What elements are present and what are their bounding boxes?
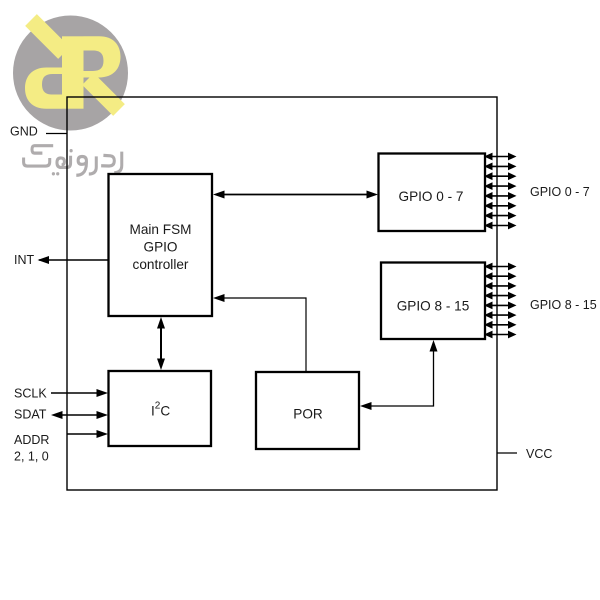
block POR <box>256 372 359 449</box>
wire Main FSM to I2C bidirectional <box>160 324 162 363</box>
wire GPIO pin 14 bidirectional <box>490 324 510 326</box>
wire SDAT bidirectional <box>59 414 100 416</box>
svg-text:GPIO 0 - 7: GPIO 0 - 7 <box>399 189 464 204</box>
wire POR to GPIO 8-15 <box>367 347 434 406</box>
wire GPIO pin 8 bidirectional <box>490 266 510 268</box>
wire GPIO pin 4 bidirectional <box>490 195 510 197</box>
svg-text:SCLK: SCLK <box>14 387 47 401</box>
chip outer border <box>67 97 497 490</box>
wire GND tick <box>46 133 67 135</box>
svg-text:GPIO 8 - 15: GPIO 8 - 15 <box>530 298 597 312</box>
wire GPIO pin 9 bidirectional <box>490 275 510 277</box>
wire ADDR input <box>67 433 100 435</box>
svg-text:GND: GND <box>10 125 38 139</box>
wire Main FSM to GPIO 0-7 bidirectional <box>221 194 370 196</box>
block GPIO 0-7 <box>379 154 486 232</box>
svg-text:GPIO: GPIO <box>144 240 178 255</box>
wire GPIO pin 6 bidirectional <box>490 215 510 217</box>
logo circle background <box>13 16 128 131</box>
svg-text:2, 1, 0: 2, 1, 0 <box>14 450 49 464</box>
wire GPIO pin 7 bidirectional <box>490 225 510 227</box>
wire SCLK input <box>51 392 100 394</box>
wire GPIO pin 12 bidirectional <box>490 304 510 306</box>
block GPIO 8-15 <box>381 263 485 340</box>
wire GPIO pin 1 bidirectional <box>490 165 510 167</box>
svg-text:I2C: I2C <box>151 401 170 419</box>
wire GPIO pin 13 bidirectional <box>490 314 510 316</box>
logo RR monogram <box>25 20 121 110</box>
block Main FSM GPIO controller <box>109 174 213 316</box>
watermark persian text <box>24 146 122 176</box>
wire VCC tick <box>497 452 517 454</box>
svg-text:Main FSM: Main FSM <box>130 222 192 237</box>
wire GPIO pin 11 bidirectional <box>490 295 510 297</box>
svg-text:SDAT: SDAT <box>14 408 47 422</box>
svg-text:ADDR: ADDR <box>14 433 49 447</box>
block I2C <box>109 371 212 446</box>
wire GPIO pin 10 bidirectional <box>490 285 510 287</box>
svg-text:GPIO 8 - 15: GPIO 8 - 15 <box>397 299 470 314</box>
svg-text:VCC: VCC <box>526 447 552 461</box>
wire GPIO pin 15 bidirectional <box>490 334 510 336</box>
wire GPIO pin 5 bidirectional <box>490 205 510 207</box>
svg-text:controller: controller <box>133 257 189 272</box>
svg-text:GPIO 0 - 7: GPIO 0 - 7 <box>530 185 590 199</box>
wire GPIO pin 3 bidirectional <box>490 185 510 187</box>
svg-text:POR: POR <box>293 407 323 422</box>
wire INT output <box>39 259 109 261</box>
svg-text:INT: INT <box>14 253 35 267</box>
wire GPIO pin 2 bidirectional <box>490 175 510 177</box>
wire GPIO pin 0 bidirectional <box>490 156 510 158</box>
wire POR to Main FSM <box>221 298 306 372</box>
